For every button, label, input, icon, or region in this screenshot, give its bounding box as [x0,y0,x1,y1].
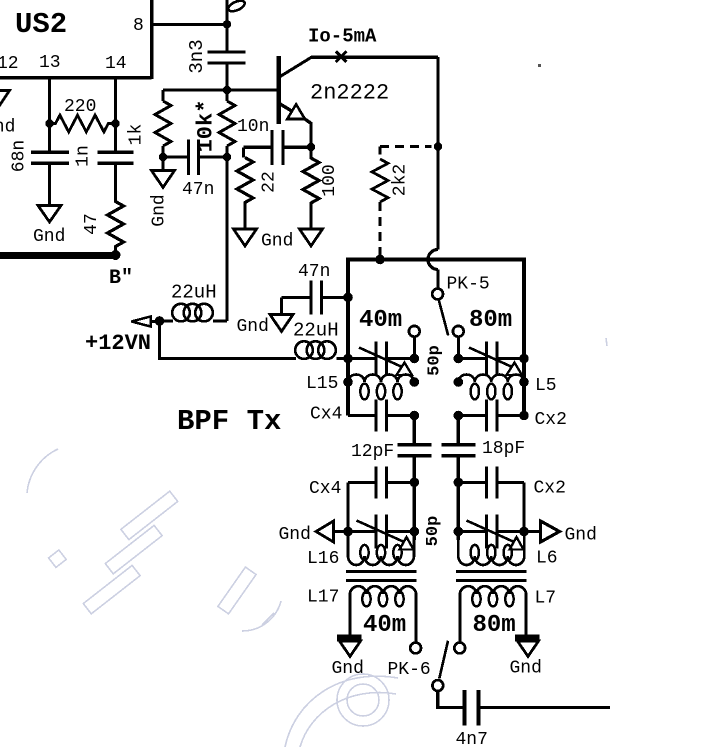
ground under 68n [33,163,65,247]
node Cx4 lower right [410,478,420,488]
svg-text:Cx4: Cx4 [310,405,342,425]
svg-text:Gnd: Gnd [510,659,542,679]
trimmer capacitor 50p 40m (top) [348,336,414,376]
node Cx2 right corner [519,411,529,421]
wire right outer rail [522,258,526,416]
node trimmer 80m right [519,354,529,364]
resistor 10k* [194,90,236,157]
svg-text:68n: 68n [10,140,30,172]
svg-text:18pF: 18pF [482,439,525,459]
arrow +12VN [132,317,151,327]
svg-text:PK-5: PK-5 [447,275,490,295]
inductor L5 [458,375,556,400]
capacitor 47n (base bypass) [163,140,227,201]
svg-text:Gnd: Gnd [279,525,311,545]
switch PK-6 common contact [432,680,443,691]
wire base line [163,89,277,92]
wire +12V run [160,321,297,359]
svg-text:BPF Tx: BPF Tx [177,405,281,438]
svg-text:Cx2: Cx2 [534,479,566,499]
switch PK-6 contact 40m [410,643,421,654]
svg-text:14: 14 [105,54,127,74]
svg-text:Gnd: Gnd [0,118,15,138]
node rail 22uH junction [343,354,353,364]
capacitor 10n [237,117,311,165]
resistor 22 [237,158,280,230]
svg-text:Io-5mA: Io-5mA [308,26,377,48]
svg-text:L5: L5 [535,376,557,396]
svg-text:1n: 1n [74,145,94,167]
resistor 1k [127,90,172,157]
svg-text:L16: L16 [307,549,339,569]
wire lower left rail [346,482,349,535]
svg-text:Gnd: Gnd [150,194,170,226]
svg-text:2n2222: 2n2222 [310,81,389,106]
node pin13 [45,119,53,127]
svg-text:40m: 40m [359,307,402,334]
svg-text:10n: 10n [237,117,269,137]
svg-text:50p: 50p [424,516,443,547]
ground under L7 (filled) [510,638,542,679]
capacitor 47n (top of BPF) [282,262,349,315]
svg-text:4n7: 4n7 [456,730,488,747]
op-amp/IC U S2 box [0,0,152,79]
svg-text:80m: 80m [469,307,512,334]
svg-text:100: 100 [320,164,340,196]
pin 13 wire [48,78,51,153]
svg-text:L7: L7 [535,589,557,609]
switch PK-6 arm [439,641,448,679]
capacitor Cx4 (upper) [310,400,414,432]
resistor 2k2 (dashed connections) [372,147,432,256]
svg-text:12: 12 [0,54,19,74]
inductor L7 (transformer secondary 80m) [460,586,556,643]
svg-text:2k2: 2k2 [391,164,411,196]
capacitor Cx2 (upper) [458,400,567,432]
trimmer capacitor 50p 80m (top) [458,336,524,376]
capacitor Cx2 (lower) [458,466,566,498]
ground arrow right (trimmer row 2) [541,521,597,546]
stray mark [538,64,541,67]
node 1k bottom [159,153,167,161]
node trimmer2 80m left [454,527,464,537]
capacitor 3n3 [186,39,246,73]
node Cx4 right [410,411,420,421]
svg-text:22uH: 22uH [171,282,217,304]
node 47n rail junction [343,293,353,303]
wire hop over feed line [428,250,438,289]
capacitor 18pF [441,416,525,483]
inductor 22uH (first) [160,282,228,322]
node trimmer2 40m right [410,527,420,537]
svg-text:Gnd: Gnd [565,526,597,546]
node Cx2 left [454,411,464,421]
svg-text:47n: 47n [182,180,214,200]
node L5 left [454,377,464,387]
node trimmer2 40m left [343,527,353,537]
watermark [27,338,607,747]
thick bus B [0,252,116,259]
inductor 22uH (second) [293,320,348,359]
capacitor 68n [10,140,70,172]
svg-text:Gnd: Gnd [237,317,269,337]
inductor stub top edge [226,0,229,52]
inductor L15 [306,374,414,399]
resistor 220 [50,97,116,132]
svg-text:US2: US2 [15,8,67,41]
inductor L16 (transformer primary 40m) [307,532,414,570]
wire arrow to node [151,320,161,323]
wire collector with X marker [311,51,438,249]
resistor 47 [82,163,124,252]
svg-text:+12VN: +12VN [85,331,151,356]
capacitor 12pF [351,416,431,483]
ground under 100 [300,229,323,246]
svg-text:PK-6: PK-6 [388,660,431,680]
ground under 22 [234,229,294,252]
switch PK-5 common contact [432,289,443,300]
switch PK-5 contact 80m [453,326,464,337]
svg-text:50p: 50p [426,345,445,376]
node Cx2 lower left [454,478,464,488]
trimmer capacitor 50p 80m (bottom) [458,515,540,550]
node pin8 junction [223,20,231,28]
wire PK-6 to 4n7 [438,690,464,707]
svg-text:Gnd: Gnd [261,232,293,252]
svg-text:13: 13 [39,53,61,73]
svg-text:L17: L17 [307,588,339,608]
node base junction [223,86,231,94]
svg-text:47n: 47n [298,262,330,282]
node L5 right [519,377,529,387]
wire 4n7 output [480,706,610,709]
ground under 1k [150,157,175,227]
node 10k bottom [223,153,231,161]
transformer core 80m [456,572,527,581]
wire pin8 to node [152,23,228,26]
node trimmer2 80m right [519,527,529,537]
node L15 left [343,377,353,387]
wire inner rails to L16/L6 [414,482,458,540]
ground arrow left (trimmer row 2) [279,521,334,545]
svg-text:12pF: 12pF [351,442,394,462]
ground for 47n [237,315,294,338]
ground partial at left edge [0,91,15,138]
node trimmer 80m left [454,354,464,364]
svg-text:80m: 80m [473,612,516,639]
node pin14 [111,119,119,127]
resistor 100 [303,147,340,229]
wire left outer rail [346,258,350,416]
svg-text:220: 220 [64,97,96,117]
wire 3n3 to base node [226,63,229,90]
node trimmer 40m right [410,354,420,364]
node bus end [111,250,121,260]
svg-text:Gnd: Gnd [33,227,65,247]
svg-text:L15: L15 [306,374,338,394]
node collector/2k2 junction [434,142,442,150]
switch PK-6 contact 80m [454,643,465,654]
svg-text:8: 8 [133,16,144,36]
svg-text:Cx2: Cx2 [535,410,567,430]
capacitor 1n [74,145,134,167]
node 2k2 bottom [375,255,385,265]
node L15 right [410,377,420,387]
svg-text:B": B" [109,267,133,290]
transistor Q1 2n2222 [279,56,390,147]
switch PK-5 contact 40m [409,326,420,337]
node emitter junction [307,143,315,151]
svg-text:1k: 1k [127,124,147,146]
svg-text:22: 22 [260,171,280,193]
svg-text:Gnd: Gnd [332,659,364,679]
node +12VN junction [155,316,165,326]
capacitor 4n7 [456,690,488,747]
switch PK-5 arm [439,299,449,335]
svg-text:L6: L6 [536,549,558,569]
trimmer capacitor 50p 40m (bottom) [334,515,415,550]
wire 10k rail down to 22uH [226,157,229,321]
svg-text:47: 47 [82,213,102,235]
svg-text:3n3: 3n3 [186,39,208,73]
svg-text:Cx4: Cx4 [309,479,341,499]
transformer core 40m [346,572,417,581]
inductor L17 (transformer secondary 40m) [307,586,416,643]
capacitor Cx4 (lower) [309,466,414,499]
pin 14 wire [114,78,117,153]
inductor L6 (transformer primary 80m) [458,532,557,569]
svg-text:40m: 40m [363,612,406,639]
ground under L17 (filled) [332,638,364,679]
wire top feed line [348,258,524,262]
svg-text:22uH: 22uH [293,320,339,342]
wire lower right rail [522,482,525,535]
